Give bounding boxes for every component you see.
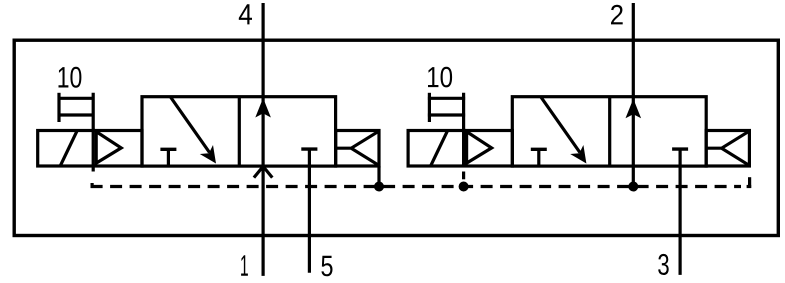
supply arrowhead into valve V1 at port 1 (254, 166, 272, 177)
pilot amplifier triangle (valve V1) (96, 132, 121, 164)
enclosure border (14, 40, 778, 235)
port 3 line (678, 149, 681, 275)
valve body V2 (512, 97, 706, 166)
junction dot at solenoid pilot V2 (459, 182, 469, 192)
flow arrow up (valve V2 right position) (626, 99, 642, 119)
pilot amplifier triangle (valve V2) (467, 132, 492, 164)
solenoid coil diagonal (valve V1) (60, 131, 77, 166)
port label 5 (321, 256, 332, 276)
spring return box (valve V1) (336, 131, 379, 167)
pilot line from solenoid down through bracket (valve V2) (462, 93, 465, 166)
flow path diagonal arrow (valve V1 left position) (171, 97, 210, 153)
blocked port 3 T symbol (valve V2 right position) (672, 147, 688, 150)
pilot line from solenoid down through bracket (valve V1) (92, 93, 95, 172)
pneumatic spring triangle (valve V1) (336, 131, 380, 166)
port label 2 (611, 5, 623, 25)
junction dot at spring pilot branch V1 (374, 182, 384, 192)
junction dot port 2 line on pilot line (628, 182, 638, 192)
solenoid coil diagonal (valve V2) (431, 131, 448, 166)
solenoid box (valve V1) (38, 131, 142, 167)
blocked port T symbol (valve V1 left position) (160, 149, 176, 166)
pilot stub dash below solenoid V2 (462, 172, 465, 180)
spring return box (valve V2) (706, 131, 749, 167)
pilot dashed line (internal pilot air) (90, 183, 93, 188)
pilot branch from spring box to dashed line (valve V1) (377, 166, 380, 187)
working line port 4 to port 1 (valve V1) (262, 3, 265, 276)
valve body divider V2 (608, 97, 611, 166)
blocked port 5 T symbol (valve V1 right position) (301, 147, 317, 150)
port label 3 (658, 254, 669, 275)
pilot dashed line end tick up to spring of valve V2 (748, 177, 751, 188)
port label 4 (239, 4, 252, 24)
blocked port T symbol (valve V2 left position) (531, 149, 547, 166)
valve body V1 (142, 97, 336, 166)
pilot label 10 (valve V1) (59, 67, 82, 88)
valve body divider V1 (238, 97, 241, 166)
port label 1 (241, 255, 248, 275)
pilot port symbol 10 (valve V1) (58, 93, 95, 122)
flow path diagonal arrow (valve V2 left position) (541, 97, 580, 153)
solenoid box (valve V2) (408, 131, 512, 167)
pilot label 10 (valve V2) (428, 67, 452, 88)
pneumatic spring triangle (valve V2) (706, 131, 750, 166)
port 5 line (308, 149, 311, 273)
flow arrow up (valve V1 right position) (255, 98, 271, 118)
working line port 2 (valve V2) (632, 3, 635, 187)
pilot port symbol 10 (valve V2) (428, 93, 465, 122)
